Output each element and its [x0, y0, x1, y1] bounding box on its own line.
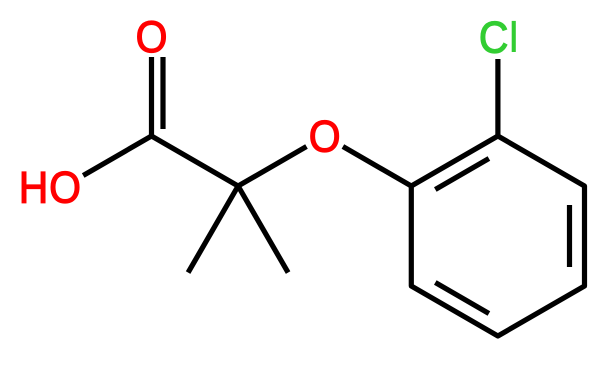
carbonyl C=O double bond main line	[149, 57, 154, 136]
svg-text:O: O	[309, 112, 341, 162]
ring double bond inner line C3-C4	[567, 205, 572, 267]
bond ring C2-Cl	[495, 59, 500, 136]
carbonyl O label	[136, 12, 168, 62]
bond HO-Cc and bond Cc-C2	[83, 136, 238, 186]
bond C2-methyl B	[238, 186, 288, 273]
Cl label : C	[479, 13, 509, 63]
ring double bond inner line C5-C6	[435, 283, 489, 314]
bond O ether-ring C1	[343, 147, 411, 187]
svg-text:H: H	[19, 163, 49, 213]
svg-text:C: C	[479, 13, 509, 63]
ether O label	[309, 112, 341, 162]
HO label : O	[49, 163, 81, 213]
HO label : H	[19, 163, 49, 213]
Cl label : l	[512, 21, 516, 52]
bond C2-methyl A and bond C2-O ether	[188, 147, 306, 273]
carbonyl C=O double bond secondary line	[160, 57, 165, 129]
benzene ring outline	[411, 136, 584, 336]
svg-text:O: O	[136, 12, 168, 62]
svg-text:O: O	[49, 163, 81, 213]
ring double bond inner line C1-C2	[435, 159, 489, 190]
